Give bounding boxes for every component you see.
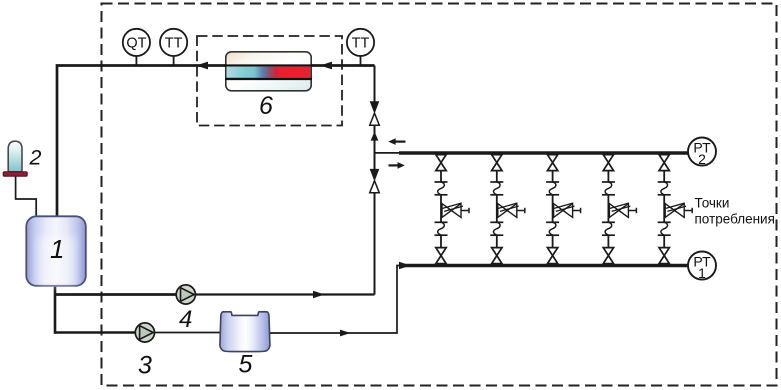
svg-text:1: 1 bbox=[698, 265, 706, 281]
svg-text:6: 6 bbox=[259, 92, 273, 120]
svg-text:QT: QT bbox=[126, 36, 146, 52]
svg-text:5: 5 bbox=[239, 351, 253, 379]
svg-text:4: 4 bbox=[179, 306, 192, 333]
floating arrow right (supply flow) bbox=[389, 164, 400, 166]
dashed box around heat exchanger 6 bbox=[197, 36, 342, 126]
distribution branch 3 bbox=[546, 155, 581, 264]
node: riser to top header connector bbox=[375, 152, 401, 154]
base of lamp 2 bbox=[3, 172, 27, 176]
distribution branch 5 bbox=[658, 155, 693, 264]
lamp/sensor 2 bbox=[8, 141, 22, 172]
bottom header (return manifold) bbox=[403, 264, 688, 268]
instrument PT1 (return header pressure) bbox=[688, 252, 716, 280]
distribution branch 1 bbox=[435, 155, 470, 264]
arrow on main pipe (right of exchanger) bbox=[320, 62, 332, 70]
heat exchanger 6 bbox=[226, 52, 311, 91]
instrument PT2 (supply header pressure) bbox=[688, 138, 716, 166]
svg-text:потребления: потребления bbox=[695, 212, 775, 227]
tank 1 (storage tank) bbox=[26, 216, 86, 285]
svg-text:3: 3 bbox=[138, 352, 152, 380]
arrow on main pipe (left of exchanger) bbox=[196, 62, 208, 70]
svg-text:Точки: Точки bbox=[695, 196, 730, 211]
arrow on pump 4 pipe bbox=[313, 291, 325, 299]
wire: lamp 2 drain line into tank 1 bbox=[16, 177, 37, 217]
wire: riser with check valves (x=374.5) bbox=[374, 66, 376, 102]
distribution branch 2 bbox=[490, 155, 525, 264]
instrument TT (right) bbox=[360, 55, 362, 65]
flow arrow up on riser bbox=[371, 132, 379, 141]
svg-text:TT: TT bbox=[352, 36, 370, 52]
instrument TT (left) bbox=[173, 55, 175, 65]
wire: pump 4 discharge pipe to riser bbox=[55, 293, 178, 296]
svg-text:1: 1 bbox=[50, 234, 64, 264]
distribution branch 4 bbox=[602, 155, 637, 264]
svg-text:2: 2 bbox=[698, 151, 706, 167]
pump 4 bbox=[176, 285, 195, 304]
wire: main supply pipe (top), from riser to tank down-leg bbox=[57, 66, 375, 217]
arrow on vessel 5 outlet pipe bbox=[340, 330, 351, 337]
floating arrow left (return flow) bbox=[393, 141, 406, 143]
check valve CV1 (filled cone over open cone) bbox=[370, 101, 380, 114]
vessel 5 (expansion/membrane tank) bbox=[220, 312, 270, 352]
wire: tank bottom outlet leg bbox=[54, 285, 57, 334]
svg-text:2: 2 bbox=[29, 146, 42, 170]
wire: pump 3 suction/discharge pipe through vessel 5 bbox=[55, 331, 137, 334]
pump 3 bbox=[135, 323, 154, 342]
instrument QT bbox=[135, 55, 137, 65]
check valve CV2 (filled cone over open cone) bbox=[370, 169, 380, 182]
top header (supply manifold) bbox=[399, 151, 688, 155]
arrow at bottom header inlet bbox=[399, 262, 411, 270]
svg-text:TT: TT bbox=[165, 36, 183, 52]
